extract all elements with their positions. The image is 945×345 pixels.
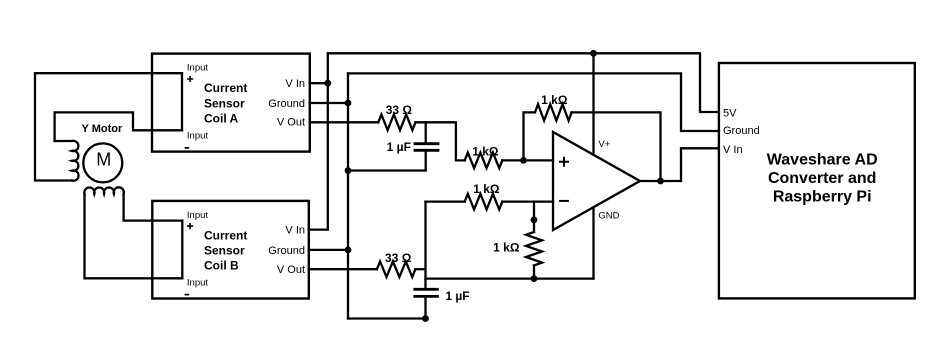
resistor R5 1 kOhm [465, 194, 503, 210]
capacitor C1 1uF [425, 122, 427, 143]
wire: sensor A V Out to resistor R1 [310, 121, 379, 123]
node: junction C2 / ground rail [422, 315, 429, 322]
svg-text:V In: V In [285, 225, 305, 237]
svg-text:Converter and: Converter and [768, 170, 876, 187]
node: junction V+ / 5V rail [590, 50, 597, 57]
svg-text:1 kΩ: 1 kΩ [473, 182, 500, 196]
wire: ground rail bottom to capacitor C2 [348, 317, 426, 319]
svg-text:1 µF: 1 µF [387, 140, 411, 154]
wire: R2 to op-amp non-inverting input [502, 159, 553, 161]
node: junction output / feedback [657, 178, 664, 185]
resistor R2 1 kOhm [465, 153, 503, 169]
resistor R3 1 kOhm feedback [535, 104, 572, 120]
svg-text:Raspberry Pi: Raspberry Pi [773, 188, 872, 205]
inductor L2 (motor bottom coil) [84, 187, 124, 194]
sensor A input - symbol [185, 147, 190, 149]
svg-text:Input: Input [187, 62, 208, 73]
box: Waveshare AD Converter and Raspberry Pi [719, 63, 915, 298]
wire: sensor B V Out to resistor R4 [309, 268, 377, 270]
wire: motor phase B loop [124, 194, 183, 221]
svg-text:V Out: V Out [277, 264, 305, 276]
node: junction Ground B [345, 247, 352, 254]
svg-text:Input: Input [187, 131, 208, 142]
wire: sensor B V In [309, 228, 328, 230]
wire: inverting node vertical [424, 202, 426, 290]
svg-text:V+: V+ [598, 139, 610, 150]
sensor A input + symbol [187, 76, 193, 82]
svg-text:33 Ω: 33 Ω [385, 251, 412, 265]
box: Current Sensor Coil A [152, 54, 310, 152]
svg-text:M: M [96, 150, 111, 170]
inductor L1 (motor left coil) [55, 141, 79, 181]
resistor R4 33 Ohm [377, 261, 416, 277]
svg-text:Sensor: Sensor [204, 96, 245, 110]
svg-text:Waveshare AD: Waveshare AD [767, 152, 878, 169]
svg-text:Input: Input [187, 210, 208, 221]
wire: sensor A Ground [310, 102, 348, 104]
op-amp - symbol [559, 200, 569, 202]
wire: inverting node to R5 [426, 200, 465, 202]
wire: sensor B input return to coil [85, 194, 183, 278]
wire: sensed conductor through sensor A (Input+ to Input-) [181, 73, 183, 130]
node: junction R6 / GND rail [531, 275, 538, 282]
wire: C1 to ground rail [348, 169, 426, 171]
svg-text:Ground: Ground [268, 245, 305, 257]
wire: V+ supply to op-amp [592, 53, 594, 154]
wire: sensor B Ground [309, 249, 348, 251]
op-amp + symbol [559, 157, 569, 167]
wire: GND bottom rail [426, 277, 594, 279]
svg-text:33 Ω: 33 Ω [386, 103, 413, 117]
svg-text:1 kΩ: 1 kΩ [493, 241, 520, 255]
wire: ground rail to converter Ground pin [348, 73, 719, 131]
svg-text:Y Motor: Y Motor [82, 123, 123, 135]
svg-text:V In: V In [723, 144, 743, 156]
svg-text:V Out: V Out [277, 117, 305, 129]
svg-text:Ground: Ground [723, 125, 760, 137]
svg-text:Coil A: Coil A [204, 112, 239, 126]
resistor R6 1 kOhm vertical [526, 232, 542, 265]
node: junction on R6 branch [531, 217, 538, 224]
wire: R3 to op-amp output [572, 112, 661, 181]
svg-text:Coil B: Coil B [204, 259, 239, 273]
wire: 5V top rail to converter 5V pin [328, 53, 719, 112]
wire: ground vertical rail [347, 73, 349, 318]
sensor B input + symbol [187, 223, 193, 229]
svg-text:Current: Current [204, 81, 247, 95]
node: junction + input / feedback [520, 157, 527, 164]
svg-text:Ground: Ground [268, 98, 305, 110]
svg-text:5V: 5V [723, 107, 737, 119]
wire: R6 to GND rail [533, 265, 535, 278]
wire: motor phase A loop [35, 73, 182, 180]
wire: R5 to op-amp inverting input [502, 200, 553, 202]
sensor B input - symbol [185, 294, 190, 296]
wire: 5V vertical rail [327, 53, 329, 229]
wire: R1 to R2 [416, 122, 465, 160]
wire: inverting input to R6 [533, 202, 535, 232]
svg-text:Input: Input [187, 278, 208, 289]
wire: sensed conductor through sensor B (Input+ to Input-) [181, 221, 183, 279]
wire: op-amp output to converter V In [640, 148, 719, 181]
svg-text:Sensor: Sensor [204, 244, 245, 258]
wire: sensor A V In to 5V rail [310, 82, 328, 84]
capacitor C2 1uF [415, 288, 438, 291]
svg-text:Current: Current [204, 228, 247, 242]
wire: motor loop A to sensor A input [55, 112, 182, 141]
box: Current Sensor Coil B [152, 201, 308, 299]
op-amp U1 [553, 132, 640, 230]
resistor R1 33 Ohm [378, 115, 415, 131]
svg-text:V In: V In [285, 78, 305, 90]
svg-text:1 kΩ: 1 kΩ [472, 144, 499, 158]
node: junction V In A / 5V rail [324, 80, 331, 87]
svg-text:1 µF: 1 µF [445, 289, 469, 303]
wire: feedback from + node up [524, 112, 536, 160]
node: junction Ground A [345, 100, 352, 107]
node: junction C1 / ground rail [345, 167, 352, 174]
svg-text:GND: GND [598, 211, 619, 222]
wire: R4 to inverting node [415, 268, 425, 270]
motor M1 circle [83, 143, 122, 182]
wire: op-amp GND pin down [592, 207, 594, 278]
svg-text:1 kΩ: 1 kΩ [541, 93, 568, 107]
